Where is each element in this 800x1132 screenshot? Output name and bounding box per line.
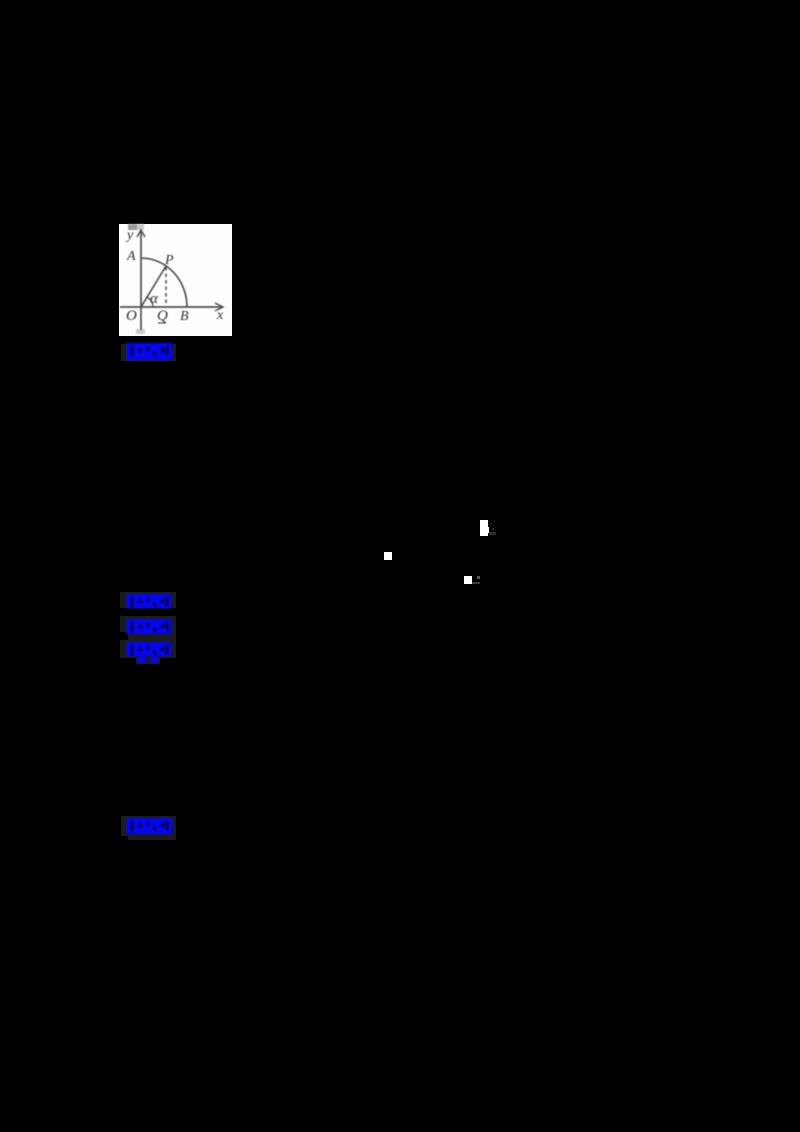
svg-text:x: x: [216, 308, 224, 323]
svg-text:B: B: [180, 309, 189, 324]
svg-text:α: α: [150, 291, 159, 307]
svg-text:A: A: [126, 249, 136, 264]
svg-text:P: P: [164, 253, 174, 268]
svg-text:y: y: [125, 228, 134, 243]
svg-text:Q: Q: [157, 308, 168, 324]
svg-text:O: O: [126, 308, 137, 324]
